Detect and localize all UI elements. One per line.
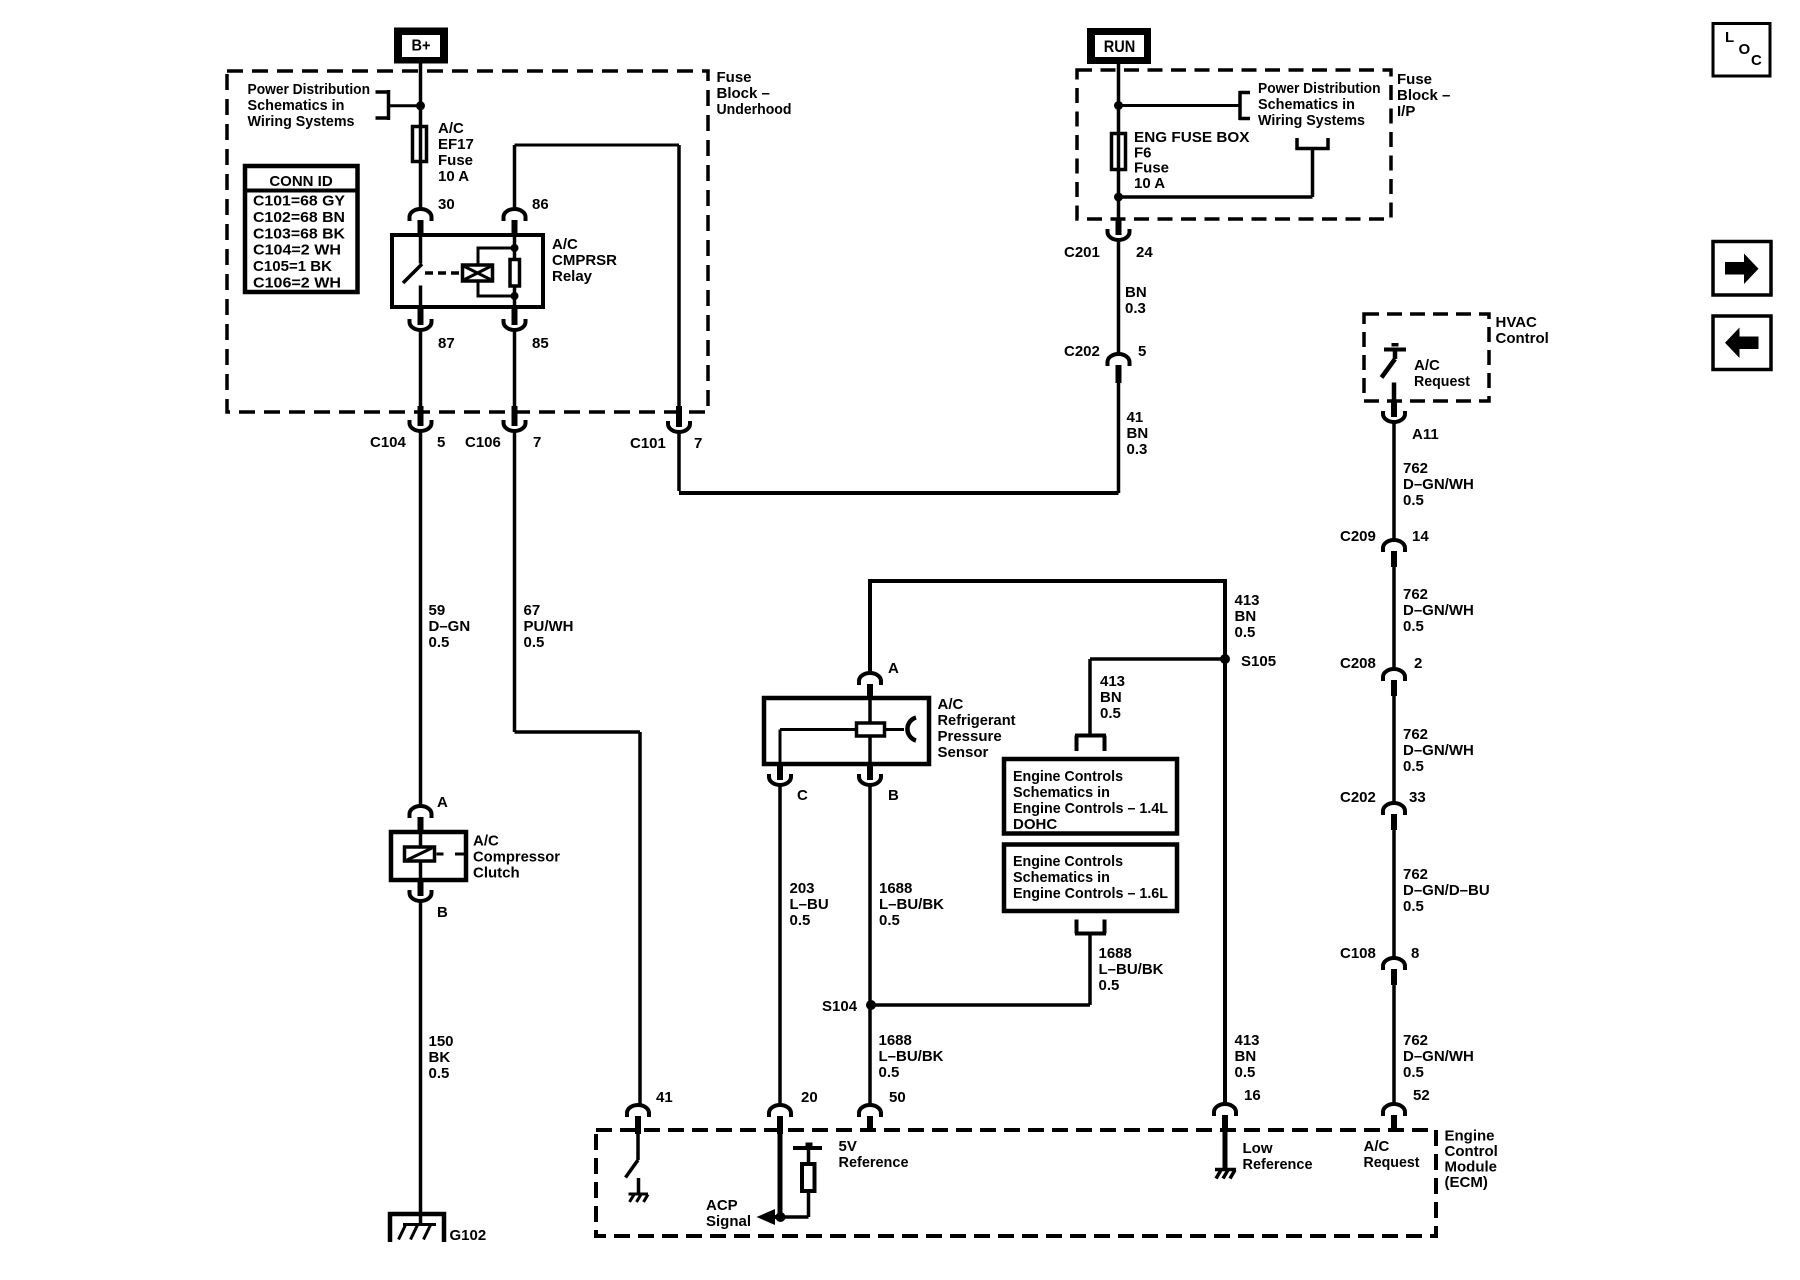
svg-text:C101=68 GY: C101=68 GY (253, 193, 345, 210)
svg-text:D–GN/WH: D–GN/WH (1403, 476, 1474, 493)
svg-text:EF17: EF17 (438, 136, 474, 153)
svg-text:C202: C202 (1064, 343, 1100, 360)
connector ECM pin 52 (1383, 1104, 1405, 1131)
svg-text:0.5: 0.5 (1403, 898, 1424, 915)
ECM ground pin 16 (1215, 1170, 1236, 1179)
CONN ID table (245, 166, 358, 292)
svg-text:86: 86 (532, 196, 549, 213)
svg-text:C: C (1751, 52, 1762, 69)
connector C108 pin 8 (1383, 958, 1405, 985)
label 762 D-GN/WH 0.5 c (1403, 726, 1474, 775)
label C sensor (797, 787, 808, 804)
svg-text:C209: C209 (1340, 528, 1376, 545)
A/C compressor clutch box (391, 832, 466, 880)
svg-text:0.5: 0.5 (429, 634, 450, 651)
ground G102 (390, 1214, 444, 1242)
sensor element (857, 723, 885, 736)
svg-text:0.3: 0.3 (1125, 300, 1146, 317)
svg-text:C208: C208 (1340, 655, 1376, 672)
connector A11 (1383, 401, 1405, 422)
label C108 8 (1340, 945, 1419, 962)
svg-text:87: 87 (438, 335, 455, 352)
junction dot fuse out (1114, 193, 1123, 202)
svg-text:D–GN: D–GN (429, 618, 471, 635)
svg-text:Engine: Engine (1445, 1128, 1495, 1145)
svg-text:Reference: Reference (1243, 1156, 1313, 1173)
svg-text:BN: BN (1235, 1048, 1257, 1065)
svg-text:0.3: 0.3 (1127, 441, 1148, 458)
svg-text:Engine Controls – 1.4L: Engine Controls – 1.4L (1013, 800, 1168, 817)
svg-text:D–GN/WH: D–GN/WH (1403, 1048, 1474, 1065)
svg-text:67: 67 (524, 602, 541, 619)
svg-text:413: 413 (1235, 592, 1260, 609)
label 413 BN 0.5 branch (1100, 673, 1125, 722)
svg-text:0.5: 0.5 (1403, 492, 1424, 509)
wire C104 to clutch A (419, 432, 423, 805)
LOC box (1713, 24, 1770, 77)
label S104 (822, 998, 858, 1015)
svg-text:Fuse: Fuse (1397, 71, 1432, 88)
svg-text:Wiring Systems: Wiring Systems (1258, 112, 1365, 129)
fuse block underhood dashed box (227, 71, 708, 412)
label 1688 L-BU/BK 0.5 upper (879, 880, 944, 929)
label clutch (473, 833, 560, 882)
sensor lead C (780, 730, 856, 764)
svg-text:L–BU/BK: L–BU/BK (879, 1048, 944, 1065)
svg-text:C201: C201 (1064, 244, 1100, 261)
svg-text:Schematics in: Schematics in (1258, 96, 1355, 113)
svg-text:BN: BN (1127, 425, 1149, 442)
svg-text:Schematics in: Schematics in (248, 97, 345, 114)
svg-text:A/C: A/C (473, 833, 499, 850)
wire C101 to run feed (679, 383, 1119, 493)
label 59 D-GN 0.5 (429, 602, 471, 651)
label 762 D-GN/WH 0.5 a (1403, 460, 1474, 509)
label 5V Reference (839, 1138, 909, 1171)
relay coil junction dots (511, 244, 519, 300)
svg-text:Schematics in: Schematics in (1013, 784, 1110, 801)
connector relay pin 85 (504, 307, 526, 330)
svg-text:C: C (797, 787, 808, 804)
wire C202 to C108 (1392, 830, 1396, 957)
off-page staple top (1075, 736, 1106, 752)
ECM dashed box (596, 1130, 1436, 1236)
bracket left note (376, 90, 422, 120)
svg-text:BK: BK (429, 1049, 451, 1066)
wire sensor A to S105 (870, 581, 1225, 672)
label A/C Request ECM (1364, 1138, 1420, 1171)
svg-text:7: 7 (533, 434, 541, 451)
svg-text:A/C: A/C (1364, 1138, 1390, 1155)
svg-text:C106: C106 (465, 434, 501, 451)
svg-text:Engine Controls – 1.6L: Engine Controls – 1.6L (1013, 885, 1168, 902)
svg-text:Power Distribution: Power Distribution (1258, 80, 1381, 97)
junction dot ACP (776, 1212, 786, 1222)
label 203 L-BU 0.5 (790, 880, 829, 929)
connector relay pin 87 (410, 307, 432, 330)
svg-text:0.5: 0.5 (524, 634, 545, 651)
label A11 (1412, 426, 1439, 443)
svg-text:C104: C104 (370, 434, 407, 451)
svg-text:C108: C108 (1340, 945, 1376, 962)
svg-text:0.5: 0.5 (790, 912, 811, 929)
connector relay pin 86 (504, 209, 526, 236)
wire C108 to ECM 52 (1392, 985, 1396, 1103)
svg-text:C202: C202 (1340, 789, 1376, 806)
label C106 7 (465, 434, 541, 451)
svg-text:L–BU: L–BU (790, 896, 829, 913)
label Fuse Block IP (1397, 71, 1450, 120)
wire relay 87 to C104 (419, 331, 423, 407)
svg-text:Engine Controls: Engine Controls (1013, 768, 1123, 785)
label 1688 L-BU/BK 0.5 mid (1099, 945, 1164, 994)
svg-text:10 A: 10 A (438, 168, 469, 185)
clutch wire (419, 833, 423, 879)
label sensor (938, 696, 1016, 761)
svg-text:A: A (888, 660, 899, 677)
label C208 2 (1340, 655, 1422, 672)
label C209 14 (1340, 528, 1429, 545)
connector clutch pin A (410, 806, 432, 833)
svg-text:85: 85 (532, 335, 549, 352)
connector C101 pin 7 (668, 406, 690, 432)
svg-text:0.5: 0.5 (1235, 1064, 1256, 1081)
svg-text:C103=68 BK: C103=68 BK (253, 225, 345, 242)
label C101 7 (630, 435, 702, 452)
svg-text:B: B (888, 787, 899, 804)
connector relay pin 30 (410, 209, 432, 236)
svg-text:Request: Request (1414, 373, 1470, 390)
fuse block IP dashed box (1077, 70, 1391, 219)
svg-text:L–BU/BK: L–BU/BK (1099, 961, 1164, 978)
svg-text:5: 5 (437, 434, 445, 451)
svg-text:B+: B+ (412, 38, 431, 55)
wire relay 86 loop via C101 (515, 145, 680, 407)
svg-text:BN: BN (1100, 689, 1122, 706)
svg-text:O: O (1739, 41, 1751, 58)
svg-text:30: 30 (438, 196, 455, 213)
svg-text:762: 762 (1403, 726, 1428, 743)
svg-text:Schematics in: Schematics in (1013, 869, 1110, 886)
splice S105 (1220, 654, 1230, 664)
svg-text:I/P: I/P (1397, 103, 1415, 120)
connector C201 pin 24 (1108, 219, 1130, 240)
connector C104 pin 5 (410, 406, 432, 431)
wire fuse to relay pin 30 (419, 163, 423, 208)
ECM wire pin 16 (1223, 1131, 1228, 1169)
svg-text:A/C: A/C (938, 696, 964, 713)
switch A/C request HVAC (1382, 343, 1407, 401)
label 762 D-GN/WH 0.5 b (1403, 586, 1474, 635)
svg-text:20: 20 (801, 1089, 818, 1106)
label fuse EF17 (438, 120, 474, 185)
label C202 33 (1340, 789, 1426, 806)
label 762 D-GN/WH 0.5 d (1403, 1032, 1474, 1081)
svg-text:C101: C101 (630, 435, 666, 452)
clutch coil (405, 847, 466, 861)
wire sensor C to ECM 20 (778, 786, 782, 1104)
svg-text:Power Distribution: Power Distribution (248, 81, 371, 98)
junction dot RUN tap (1114, 101, 1123, 110)
relay actuator X box (463, 265, 493, 281)
svg-text:HVAC: HVAC (1496, 314, 1538, 331)
svg-text:A/C: A/C (552, 236, 578, 253)
wire C106 to ECM 41 (515, 432, 641, 1104)
svg-text:150: 150 (429, 1033, 454, 1050)
svg-text:(ECM): (ECM) (1445, 1174, 1488, 1191)
svg-text:0.5: 0.5 (879, 1064, 900, 1081)
label 41 BN 0.3 (1127, 409, 1149, 458)
label relay (552, 236, 617, 285)
svg-text:762: 762 (1403, 1032, 1428, 1049)
svg-text:24: 24 (1136, 244, 1153, 261)
svg-text:C104=2 WH: C104=2 WH (253, 242, 341, 259)
svg-text:G102: G102 (450, 1227, 487, 1244)
relay coil loop (478, 248, 515, 296)
power feed symbol B+ (394, 28, 448, 64)
label 86 (532, 196, 549, 213)
svg-text:Compressor: Compressor (473, 849, 560, 866)
wire resistor to ACP (780, 1192, 809, 1217)
label C201 24 (1064, 244, 1153, 261)
svg-text:59: 59 (429, 602, 446, 619)
svg-text:203: 203 (790, 880, 815, 897)
svg-text:41: 41 (656, 1089, 673, 1106)
connector ECM pin 16 (1214, 1104, 1236, 1131)
label 87 (438, 335, 455, 352)
svg-text:RUN: RUN (1104, 38, 1136, 56)
note power distribution left (248, 81, 371, 130)
relay A/C CMPRSR box (392, 235, 543, 307)
svg-text:16: 16 (1244, 1087, 1261, 1104)
label BN 0.3 (1125, 284, 1147, 317)
label 150 BK 0.5 (429, 1033, 454, 1082)
svg-text:CONN ID: CONN ID (269, 173, 333, 190)
svg-text:DOHC: DOHC (1013, 816, 1057, 833)
svg-text:Block –: Block – (717, 85, 770, 102)
label 20 (801, 1089, 818, 1106)
connector C202 pin 5 (1108, 354, 1130, 383)
svg-text:Wiring Systems: Wiring Systems (248, 113, 355, 130)
label B clutch (437, 904, 448, 921)
sensor wire A-B (868, 699, 872, 763)
note power distribution right (1258, 80, 1381, 129)
svg-text:Clutch: Clutch (473, 865, 520, 882)
label 52 (1413, 1087, 1430, 1104)
connector ECM pin 20 (769, 1105, 791, 1134)
label 67 PU/WH 0.5 (524, 602, 574, 651)
svg-text:ACP: ACP (706, 1197, 738, 1214)
HVAC control dashed box (1364, 314, 1489, 401)
wire relay 85 to C106 (513, 331, 517, 407)
svg-text:D–GN/D–BU: D–GN/D–BU (1403, 882, 1490, 899)
A/C refrigerant pressure sensor box (764, 698, 929, 764)
svg-text:762: 762 (1403, 586, 1428, 603)
engine controls 1.4L box (1004, 759, 1177, 834)
label G102 (450, 1227, 487, 1244)
relay switch (403, 237, 422, 305)
engine controls 1.6L box (1004, 845, 1177, 912)
svg-text:A/C: A/C (1414, 357, 1440, 374)
ECM wire pin 20 (778, 1134, 783, 1217)
svg-text:0.5: 0.5 (1235, 624, 1256, 641)
connector C208 pin 2 (1383, 669, 1405, 696)
svg-text:0.5: 0.5 (1403, 618, 1424, 635)
svg-text:52: 52 (1413, 1087, 1430, 1104)
label 85 (532, 335, 549, 352)
sensor crescent (886, 718, 916, 741)
splice S104 (866, 1000, 876, 1010)
svg-text:0.5: 0.5 (1403, 758, 1424, 775)
label C104 5 (370, 434, 445, 451)
svg-text:1688: 1688 (1099, 945, 1132, 962)
svg-text:Block –: Block – (1397, 87, 1450, 104)
svg-text:8: 8 (1411, 945, 1419, 962)
wire C208 to C202 (1392, 696, 1396, 802)
label 30 (438, 196, 455, 213)
svg-text:C106=2 WH: C106=2 WH (253, 275, 341, 292)
relay coil wire (513, 236, 517, 306)
label Low Reference (1243, 1140, 1313, 1173)
connector C202 pin 33 (1383, 803, 1405, 830)
wire C209 to C208 (1392, 567, 1396, 668)
svg-text:Module: Module (1445, 1159, 1498, 1176)
bracket fuse box note (1119, 138, 1329, 197)
svg-text:Sensor: Sensor (938, 744, 989, 761)
ACP signal arrow (757, 1209, 784, 1225)
wire C201 to C202 (1117, 241, 1121, 353)
wire clutch B to G102 (419, 902, 423, 1224)
svg-text:L: L (1725, 29, 1734, 46)
connector ECM pin 50 (859, 1105, 881, 1131)
svg-text:0.5: 0.5 (1100, 705, 1121, 722)
5V reference terminal (793, 1143, 822, 1164)
svg-text:C102=68 BN: C102=68 BN (253, 209, 345, 226)
svg-text:0.5: 0.5 (1099, 977, 1120, 994)
wire RUN to C201 (1117, 64, 1121, 219)
bracket right note (1119, 91, 1251, 120)
label 413 BN 0.5 top (1235, 592, 1260, 641)
svg-text:S104: S104 (822, 998, 858, 1015)
wire S105 branch (1090, 659, 1225, 734)
svg-text:Low: Low (1243, 1140, 1273, 1157)
svg-text:Signal: Signal (706, 1213, 751, 1230)
wire S105 to ECM 16 (1223, 661, 1227, 1103)
connector clutch pin B (410, 879, 432, 901)
label A clutch (437, 794, 448, 811)
connector ECM pin 41 (627, 1105, 649, 1134)
relay actuator dashed link (425, 271, 459, 275)
label A/C Request HVAC (1414, 357, 1470, 390)
power feed symbol RUN (1087, 28, 1151, 64)
svg-text:A11: A11 (1412, 426, 1439, 443)
ECM switch pin 41 (626, 1134, 639, 1194)
svg-text:Pressure: Pressure (938, 728, 1002, 745)
svg-text:413: 413 (1235, 1032, 1260, 1049)
nav arrow left box (1713, 316, 1771, 370)
label 1688 L-BU/BK 0.5 lower (879, 1032, 944, 1081)
svg-text:BN: BN (1235, 608, 1257, 625)
svg-text:50: 50 (889, 1089, 906, 1106)
svg-text:Request: Request (1364, 1154, 1420, 1171)
svg-text:Fuse: Fuse (438, 152, 473, 169)
svg-text:A/C: A/C (438, 120, 464, 137)
svg-text:Control: Control (1445, 1143, 1498, 1160)
label 41 (656, 1089, 673, 1106)
svg-text:CMPRSR: CMPRSR (552, 252, 617, 269)
ECM ground pin 41 (629, 1194, 649, 1202)
wire staple to S104 (871, 936, 1090, 1006)
svg-text:Refrigerant: Refrigerant (938, 712, 1016, 729)
svg-text:L–BU/BK: L–BU/BK (879, 896, 944, 913)
label ECM (1445, 1128, 1498, 1192)
label Fuse Block Underhood (717, 69, 792, 118)
svg-text:S105: S105 (1241, 653, 1276, 670)
connector C106 pin 7 (504, 406, 526, 431)
label 16 (1244, 1087, 1261, 1104)
svg-text:Control: Control (1496, 330, 1549, 347)
svg-text:B: B (437, 904, 448, 921)
svg-text:Engine Controls: Engine Controls (1013, 853, 1123, 870)
svg-text:Relay: Relay (552, 268, 593, 285)
label fuse F6 (1134, 129, 1250, 192)
svg-text:7: 7 (694, 435, 702, 452)
wire B+ to fuse EF17 (419, 63, 423, 126)
svg-text:1688: 1688 (879, 880, 912, 897)
svg-text:2: 2 (1414, 655, 1422, 672)
label HVAC Control (1496, 314, 1549, 347)
svg-text:5V: 5V (839, 1138, 857, 1155)
fuse F6 (1112, 134, 1126, 170)
svg-text:5: 5 (1138, 343, 1146, 360)
label 50 (889, 1089, 906, 1106)
label 413 BN 0.5 bottom (1235, 1032, 1260, 1081)
svg-text:D–GN/WH: D–GN/WH (1403, 742, 1474, 759)
svg-text:D–GN/WH: D–GN/WH (1403, 602, 1474, 619)
svg-text:33: 33 (1409, 789, 1426, 806)
junction dot B+ tap (416, 101, 425, 110)
svg-text:Reference: Reference (839, 1154, 909, 1171)
svg-text:0.5: 0.5 (1403, 1064, 1424, 1081)
wire A11 to C209 (1392, 423, 1396, 539)
label S105 (1241, 653, 1276, 670)
svg-text:A: A (437, 794, 448, 811)
svg-text:0.5: 0.5 (879, 912, 900, 929)
connector sensor pin B (859, 763, 881, 785)
label B sensor (888, 787, 899, 804)
label ACP Signal (706, 1197, 751, 1230)
svg-text:PU/WH: PU/WH (524, 618, 574, 635)
off-page staple bottom (1075, 920, 1106, 934)
svg-text:0.5: 0.5 (429, 1065, 450, 1082)
label A sensor (888, 660, 899, 677)
svg-text:413: 413 (1100, 673, 1125, 690)
fuse EF17 (413, 126, 427, 163)
svg-text:762: 762 (1403, 460, 1428, 477)
connector sensor pin C (769, 763, 791, 785)
svg-text:Fuse: Fuse (717, 69, 752, 86)
svg-text:1688: 1688 (879, 1032, 912, 1049)
label C202 5 (1064, 343, 1146, 360)
label 762 D-GN/D-BU 0.5 (1403, 866, 1490, 915)
relay coil resistor (510, 260, 520, 287)
connector sensor pin A (859, 673, 881, 699)
svg-text:14: 14 (1412, 528, 1429, 545)
svg-text:10 A: 10 A (1134, 175, 1165, 192)
svg-text:C105=1 BK: C105=1 BK (253, 258, 332, 275)
wire sensor B to ECM 50 (868, 786, 872, 1104)
svg-text:41: 41 (1127, 409, 1144, 426)
